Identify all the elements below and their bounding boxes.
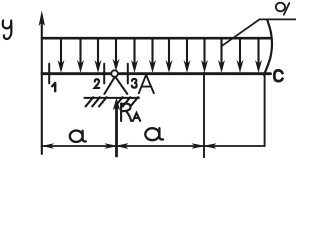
load arrowheads xyxy=(58,59,263,73)
dim bowtie at support xyxy=(105,143,129,149)
load label q xyxy=(276,3,290,15)
ground line xyxy=(84,97,139,99)
dim label a (left) xyxy=(70,131,86,142)
section tick 2 xyxy=(103,64,105,84)
section tick 3 xyxy=(127,64,129,84)
load arrow shafts xyxy=(61,40,259,65)
q leader line xyxy=(222,19,296,45)
ground hatching xyxy=(86,97,138,106)
beam xyxy=(42,72,271,75)
dim arrow left xyxy=(42,143,54,149)
beam end label c xyxy=(274,70,282,81)
y-axis xyxy=(39,11,45,155)
label R xyxy=(121,103,131,121)
dimension line xyxy=(42,145,265,147)
load extent brace xyxy=(264,20,272,75)
pin circle xyxy=(111,70,118,77)
label 3 xyxy=(132,79,137,88)
reaction arrow R_A xyxy=(113,98,120,157)
axis label y xyxy=(3,21,12,39)
support triangle legs xyxy=(104,77,127,94)
label R subscript A xyxy=(133,113,140,121)
support label A xyxy=(139,75,154,93)
extension line right xyxy=(264,73,266,146)
dim label a (right) xyxy=(145,128,163,140)
extension line mid xyxy=(203,73,205,158)
distributed load line xyxy=(42,37,270,40)
section tick 1 xyxy=(48,64,50,84)
label 1 xyxy=(52,83,55,91)
label 2 xyxy=(95,79,100,88)
dim bowtie at x=204 xyxy=(192,143,217,149)
